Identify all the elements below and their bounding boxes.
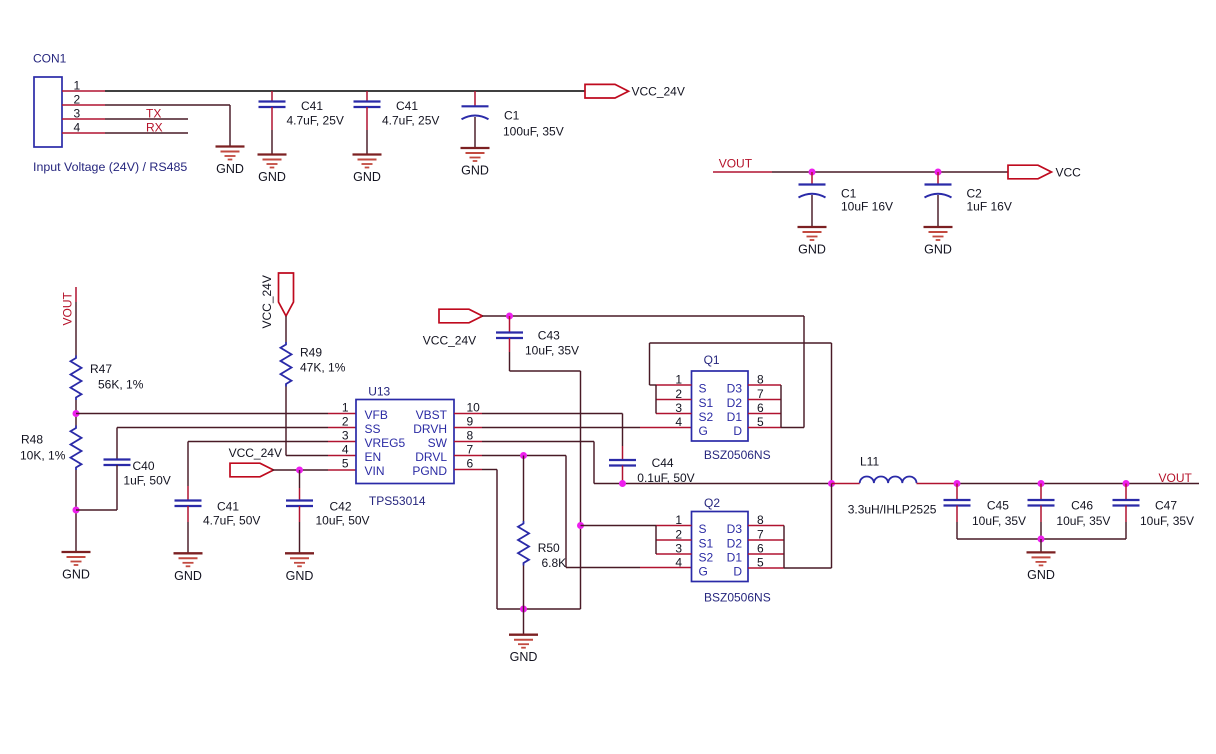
Q1 drain bus bar xyxy=(780,385,782,428)
wire DRVL to Q2 gate xyxy=(566,567,640,569)
capacitor C2 - bottom lead xyxy=(937,195,939,227)
svg-text:4.7uF, 25V: 4.7uF, 25V xyxy=(287,114,344,128)
wire RX net xyxy=(105,132,188,134)
wire VBST pin 10 stub xyxy=(454,413,482,415)
junction at VIN / C42 xyxy=(296,467,303,474)
capacitor C40 top lead xyxy=(116,428,118,460)
wire VFB row from divider to U13 pin 1 xyxy=(76,413,328,415)
CON1 pin 2 stub xyxy=(62,104,105,106)
wire DRVL row xyxy=(482,455,566,457)
capacitor C1 10uF 16V xyxy=(799,185,826,198)
capacitor C45 bottom lead xyxy=(956,506,958,523)
resistor R48 xyxy=(71,426,82,470)
capacitor C1 (10uF 16V) top lead xyxy=(811,172,813,185)
junction at C47 xyxy=(1123,480,1130,487)
svg-text:R50: R50 xyxy=(538,541,560,555)
svg-text:4: 4 xyxy=(74,121,81,135)
resistor R47 xyxy=(71,356,82,400)
CON1 pin 4 stub xyxy=(62,132,105,134)
Q2 source bus bar xyxy=(655,526,657,555)
inductor L11 xyxy=(860,477,917,484)
Q1 source pins stubs xyxy=(656,384,692,386)
svg-text:BSZ0506NS: BSZ0506NS xyxy=(704,448,771,462)
wire TX net xyxy=(105,118,188,120)
svg-text:47K, 1%: 47K, 1% xyxy=(300,361,346,375)
wire Q2 drain to SW riser xyxy=(784,567,832,569)
ground for output caps xyxy=(1027,552,1056,582)
svg-text:GND: GND xyxy=(286,569,314,583)
wire VBST down to C44 top xyxy=(622,414,624,447)
ground for C1 10uF xyxy=(798,227,827,257)
svg-text:2: 2 xyxy=(342,415,349,429)
svg-text:GND: GND xyxy=(216,162,244,176)
wire Q2 drain riser xyxy=(831,484,833,569)
svg-text:DRVL: DRVL xyxy=(415,450,447,464)
capacitor C46 top lead xyxy=(1040,484,1042,501)
svg-text:C44: C44 xyxy=(652,456,674,470)
svg-text:10K, 1%: 10K, 1% xyxy=(20,449,66,463)
Q2 source pins stubs xyxy=(656,525,692,527)
svg-text:6: 6 xyxy=(467,457,474,471)
capacitor C44 0.1uF 50V xyxy=(609,460,636,466)
capacitor C43 top lead xyxy=(509,316,511,333)
wire EN row to U13 pin 4 xyxy=(286,455,328,457)
junction at C45 xyxy=(954,480,961,487)
wire VOUT output rail xyxy=(957,483,1199,485)
svg-text:1: 1 xyxy=(74,79,81,93)
capacitor C47 bottom lead xyxy=(1125,506,1127,523)
svg-text:SS: SS xyxy=(365,422,381,436)
capacitor C41 50V bottom lead xyxy=(187,506,189,522)
wire VCC_24V rail down to Q1 drain xyxy=(803,316,805,428)
svg-text:4: 4 xyxy=(342,443,349,457)
Q1 drain pins stubs xyxy=(748,384,781,386)
capacitor C2 1uF 16V xyxy=(925,185,952,198)
wire SW row xyxy=(482,441,594,443)
svg-text:3.3uH/IHLP2525: 3.3uH/IHLP2525 xyxy=(848,503,937,517)
svg-text:VOUT: VOUT xyxy=(719,156,753,170)
junction at ground rail / R50 bottom xyxy=(520,606,527,613)
wire DRVH pin 9 stub xyxy=(454,427,482,429)
capacitor C1 (100uF 35V polarized) top lead xyxy=(474,91,476,106)
svg-text:GND: GND xyxy=(510,650,538,664)
wire SW node horizontal xyxy=(594,483,832,485)
svg-text:S1: S1 xyxy=(699,537,714,551)
wire SW to L11 xyxy=(832,483,860,485)
svg-text:10uF, 35V: 10uF, 35V xyxy=(1140,514,1194,528)
svg-text:VCC_24V: VCC_24V xyxy=(423,334,476,348)
svg-text:D1: D1 xyxy=(727,551,743,565)
svg-text:2: 2 xyxy=(74,93,81,107)
wire VOUT to VCC port - left segment xyxy=(713,171,772,173)
svg-text:VCC: VCC xyxy=(1056,166,1082,180)
capacitor C47 top lead xyxy=(1125,484,1127,501)
svg-text:1uF, 50V: 1uF, 50V xyxy=(123,474,170,488)
wire SW riser right of Q1 xyxy=(831,343,833,484)
svg-text:U13: U13 xyxy=(368,384,390,398)
svg-text:S: S xyxy=(699,522,707,536)
wire Q1 source riser xyxy=(649,343,651,385)
svg-text:C46: C46 xyxy=(1071,498,1093,512)
wire DRVL down xyxy=(565,456,567,568)
ground for C42 xyxy=(285,553,314,583)
wire VBST row to C44 xyxy=(482,413,623,415)
svg-text:D: D xyxy=(733,565,742,579)
wire C43 ground path horizontal xyxy=(510,370,581,372)
svg-text:VOUT: VOUT xyxy=(61,291,75,325)
svg-text:D1: D1 xyxy=(727,410,743,424)
svg-text:VCC_24V: VCC_24V xyxy=(632,85,685,99)
svg-text:TPS53014: TPS53014 xyxy=(369,494,426,508)
svg-text:PGND: PGND xyxy=(412,464,447,478)
wire PGND down xyxy=(496,470,498,610)
ground for U13 PGND xyxy=(509,635,538,665)
svg-text:Q1: Q1 xyxy=(704,353,720,367)
svg-text:56K, 1%: 56K, 1% xyxy=(98,378,144,392)
capacitor C43 bottom lead xyxy=(509,338,511,352)
svg-text:7: 7 xyxy=(467,443,474,457)
svg-text:Q2: Q2 xyxy=(704,496,720,510)
svg-text:C42: C42 xyxy=(330,499,352,513)
svg-text:1uF 16V: 1uF 16V xyxy=(967,199,1012,213)
Q2 drain pins stubs xyxy=(748,525,784,527)
resistor R49 xyxy=(281,342,292,386)
transistor Q1 body xyxy=(692,371,749,441)
svg-text:EN: EN xyxy=(365,450,382,464)
capacitor C45 10uF 35V xyxy=(944,500,971,506)
svg-text:GND: GND xyxy=(461,164,489,178)
transistor Q2 body xyxy=(692,512,749,582)
wire Q2 source to ground line xyxy=(581,525,657,527)
wire VOUT to VCC port - main segment xyxy=(772,171,1008,173)
Q2 drain bus bar xyxy=(783,526,785,569)
Q1 source bus bar xyxy=(655,385,657,414)
power port VCC_24V mid xyxy=(439,309,483,323)
wire L11 to output caps xyxy=(917,483,958,485)
wire ground rail under U13 xyxy=(497,608,581,610)
wire VCC_24V mid rail xyxy=(482,315,804,317)
svg-text:BSZ0506NS: BSZ0506NS xyxy=(704,591,771,605)
svg-text:10uF, 50V: 10uF, 50V xyxy=(316,514,370,528)
svg-text:C40: C40 xyxy=(133,459,155,473)
svg-text:VIN: VIN xyxy=(365,464,385,478)
svg-text:6.8K: 6.8K xyxy=(542,556,567,570)
svg-text:GND: GND xyxy=(924,243,952,257)
svg-text:GND: GND xyxy=(258,170,286,184)
junction at C46 xyxy=(1038,480,1045,487)
svg-text:9: 9 xyxy=(467,415,474,429)
power port VCC xyxy=(1008,165,1052,179)
svg-text:Input Voltage (24V) / RS485: Input Voltage (24V) / RS485 xyxy=(33,160,187,174)
svg-text:D2: D2 xyxy=(727,396,743,410)
capacitor C41 4.7uF 50V xyxy=(175,501,202,507)
wire PGND row xyxy=(482,469,497,471)
svg-text:SW: SW xyxy=(428,436,448,450)
power port VCC_24V top xyxy=(585,84,629,98)
svg-text:3: 3 xyxy=(342,429,349,443)
ground for C2 xyxy=(924,227,953,257)
wire R48 to ground xyxy=(75,470,77,552)
wire output cap ground rail xyxy=(957,538,1126,540)
junction at C2 1uF xyxy=(935,169,942,176)
wire over Q1 to SW xyxy=(650,342,832,344)
capacitor C44 bottom lead xyxy=(622,466,624,484)
wire VIN row to U13 pin 5 xyxy=(272,469,328,471)
svg-text:C41: C41 xyxy=(217,499,239,513)
CON1 pin 1 stub xyxy=(62,90,105,92)
svg-text:4.7uF, 25V: 4.7uF, 25V xyxy=(382,114,439,128)
capacitor C41 (4.7uF 50V) top lead xyxy=(187,442,189,487)
wire Q1 source row to riser xyxy=(650,384,657,386)
wire SW down xyxy=(593,442,595,484)
svg-text:C47: C47 xyxy=(1155,498,1177,512)
svg-text:GND: GND xyxy=(353,170,381,184)
capacitor C1 100uF xyxy=(462,106,489,119)
wire CON1 pin 2 to ground vertical xyxy=(229,105,231,147)
svg-text:VFB: VFB xyxy=(365,408,388,422)
svg-text:8: 8 xyxy=(467,429,474,443)
wire output ground stem xyxy=(1040,539,1042,552)
capacitor C46 10uF 35V xyxy=(1028,500,1055,506)
svg-text:VCC_24V: VCC_24V xyxy=(260,275,274,328)
svg-text:C43: C43 xyxy=(538,328,560,342)
junction at C43 xyxy=(506,313,513,320)
capacitor C42 10uF 50V xyxy=(286,501,313,507)
svg-text:S: S xyxy=(699,382,707,396)
capacitor C40 bottom lead xyxy=(116,465,118,510)
capacitor C42 bottom lead xyxy=(299,506,301,522)
junction SW node at L11 xyxy=(828,480,835,487)
svg-text:0.1uF, 50V: 0.1uF, 50V xyxy=(637,471,694,485)
wire DRVL pin 7 stub xyxy=(454,455,482,457)
ground for CON1 pin 2 xyxy=(216,147,245,177)
CON1 pin 3 stub xyxy=(62,118,105,120)
svg-text:D3: D3 xyxy=(727,522,743,536)
ground for first C41 xyxy=(258,155,287,185)
svg-text:VREG5: VREG5 xyxy=(365,436,406,450)
svg-text:L11: L11 xyxy=(860,455,879,469)
capacitor C41 second - bottom lead xyxy=(366,107,368,130)
controller U13 body xyxy=(356,400,454,484)
svg-text:S2: S2 xyxy=(699,410,714,424)
wire C43 ground path vertical xyxy=(580,371,582,609)
junction at DRVL / R50 xyxy=(520,452,527,459)
ground for second C41 xyxy=(353,155,382,185)
svg-text:VCC_24V: VCC_24V xyxy=(229,446,282,460)
capacitor C41 (second 4.7uF 25V) xyxy=(354,102,381,108)
capacitor C46 bottom lead xyxy=(1040,506,1042,523)
svg-text:D2: D2 xyxy=(727,537,743,551)
resistor R50 xyxy=(518,521,529,565)
svg-text:4: 4 xyxy=(675,556,682,570)
wire R49 to EN row xyxy=(285,387,287,456)
capacitor C2 (1uF 16V) top lead xyxy=(937,172,939,185)
ground for C1 xyxy=(461,148,490,178)
power port VCC_24V at VIN xyxy=(230,463,274,477)
wire SW pin 8 stub xyxy=(454,441,482,443)
wire VCC_24V main rail from CON1 pin 1 xyxy=(105,90,585,92)
svg-text:R47: R47 xyxy=(90,362,112,376)
wire port to R49 xyxy=(285,316,287,342)
wire Q1 drain bar to rail xyxy=(781,427,804,429)
capacitor C40 1uF 50V xyxy=(104,460,131,466)
svg-text:GND: GND xyxy=(174,569,202,583)
svg-text:D: D xyxy=(733,424,742,438)
capacitor C41 (first 4.7uF 25V) top lead xyxy=(271,91,273,102)
capacitor C45 top lead xyxy=(956,484,958,501)
connector CON1 body xyxy=(34,77,62,147)
resistor R50 top lead xyxy=(523,456,525,522)
svg-text:GND: GND xyxy=(798,243,826,257)
capacitor C1 10uF - bottom lead xyxy=(811,195,813,227)
junction at Q2 source / ground line xyxy=(577,522,584,529)
junction at C1 10uF xyxy=(809,169,816,176)
svg-text:5: 5 xyxy=(342,457,349,471)
wire VOUT down to R47 xyxy=(75,287,77,302)
capacitor C43 10uF 35V xyxy=(496,333,523,339)
svg-text:G: G xyxy=(699,424,708,438)
svg-text:G: G xyxy=(699,565,708,579)
svg-text:S2: S2 xyxy=(699,551,714,565)
svg-text:4.7uF, 50V: 4.7uF, 50V xyxy=(203,514,260,528)
wire DRVH row to Q1 gate xyxy=(482,427,640,429)
svg-text:C41: C41 xyxy=(396,99,418,113)
svg-text:VOUT: VOUT xyxy=(1159,471,1193,485)
capacitor C41 (first 4.7uF 25V) xyxy=(259,102,286,108)
wire ground rail stem xyxy=(523,609,525,635)
junction at C44 / SW node xyxy=(619,480,626,487)
svg-text:10uF 16V: 10uF 16V xyxy=(841,199,893,213)
power port VCC_24V above R49 (vertical) xyxy=(279,273,294,316)
svg-text:CON1: CON1 xyxy=(33,52,67,66)
capacitor C42 top lead xyxy=(299,470,301,488)
svg-text:R48: R48 xyxy=(21,433,43,447)
capacitor C1 - bottom lead xyxy=(474,117,476,148)
junction at VFB divider xyxy=(73,410,80,417)
svg-text:10: 10 xyxy=(467,401,481,415)
svg-text:10uF, 35V: 10uF, 35V xyxy=(972,514,1026,528)
resistor R50 bottom lead xyxy=(523,566,525,610)
wire C40 return to divider bottom xyxy=(76,509,117,511)
svg-text:100uF, 35V: 100uF, 35V xyxy=(503,124,564,138)
svg-text:1: 1 xyxy=(342,401,349,415)
svg-text:C1: C1 xyxy=(504,108,520,122)
svg-text:VBST: VBST xyxy=(416,408,448,422)
junction at R48 bottom / C40 return xyxy=(73,507,80,514)
svg-text:R49: R49 xyxy=(300,346,322,360)
wire R47 to R48 xyxy=(75,400,77,426)
svg-text:GND: GND xyxy=(1027,568,1055,582)
svg-text:4: 4 xyxy=(675,415,682,429)
capacitor C47 10uF 35V xyxy=(1113,500,1140,506)
svg-text:10uF, 35V: 10uF, 35V xyxy=(1056,514,1110,528)
wire SS row from C40 to U13 pin 2 xyxy=(117,427,328,429)
capacitor C41 first - bottom lead xyxy=(271,107,273,130)
capacitor C41 (second 4.7uF 25V) top lead xyxy=(366,91,368,102)
svg-text:GND: GND xyxy=(62,568,90,582)
wire PGND pin 6 stub xyxy=(454,469,482,471)
svg-text:D3: D3 xyxy=(727,382,743,396)
svg-text:C45: C45 xyxy=(987,498,1009,512)
svg-text:DRVH: DRVH xyxy=(413,422,447,436)
wire CON1 pin 2 to ground horizontal xyxy=(105,104,230,106)
wire VREG5 row to U13 pin 3 xyxy=(188,441,328,443)
svg-text:10uF, 35V: 10uF, 35V xyxy=(525,343,579,357)
ground for divider xyxy=(62,552,91,582)
svg-text:3: 3 xyxy=(74,107,81,121)
svg-text:C41: C41 xyxy=(301,99,323,113)
svg-text:RX: RX xyxy=(146,121,163,135)
svg-text:S1: S1 xyxy=(699,396,714,410)
junction at output ground rail xyxy=(1038,536,1045,543)
svg-text:TX: TX xyxy=(146,107,161,121)
ground for C41 50V xyxy=(174,553,203,583)
